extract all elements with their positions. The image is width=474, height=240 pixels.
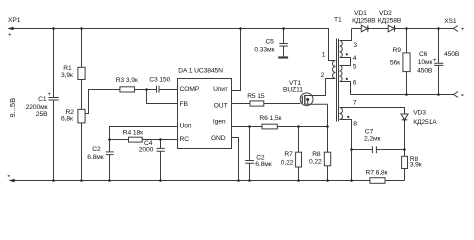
svg-text:9...5В: 9...5В: [8, 98, 17, 118]
svg-text:R7: R7: [284, 151, 293, 158]
svg-text:R3 3,9к: R3 3,9к: [116, 77, 138, 84]
svg-text:КД251А: КД251А: [413, 119, 437, 126]
svg-text:КД258В: КД258В: [352, 17, 376, 24]
svg-text:2200мк: 2200мк: [26, 104, 48, 111]
svg-text:+: +: [47, 91, 51, 98]
svg-text:6,8к: 6,8к: [61, 116, 73, 123]
svg-text:С5: С5: [265, 39, 274, 46]
svg-text:DA 1 UC3845N: DA 1 UC3845N: [178, 67, 223, 74]
svg-text:C3 150: C3 150: [149, 77, 170, 84]
svg-text:2: 2: [321, 72, 325, 79]
svg-text:FB: FB: [180, 101, 189, 108]
svg-text:R6 1,5к: R6 1,5к: [259, 115, 281, 122]
svg-text:6.8мк: 6.8мк: [255, 161, 271, 168]
svg-text:25В: 25В: [36, 111, 48, 118]
svg-text:+: +: [433, 57, 437, 64]
svg-text:Igen: Igen: [213, 118, 226, 125]
svg-text:Uпит: Uпит: [213, 86, 228, 93]
svg-text:3,9к: 3,9к: [61, 72, 73, 79]
svg-text:10мк: 10мк: [418, 59, 433, 66]
svg-text:3,9к: 3,9к: [410, 162, 422, 169]
svg-text:450В: 450В: [444, 51, 460, 58]
svg-text:56к: 56к: [390, 60, 400, 67]
svg-text:0,22: 0,22: [309, 159, 322, 166]
svg-text:VD3: VD3: [413, 110, 426, 117]
svg-text:COMP: COMP: [180, 86, 200, 93]
svg-text:450В: 450В: [417, 68, 433, 75]
svg-text:OUT: OUT: [214, 102, 228, 109]
svg-text:VD1: VD1: [354, 10, 367, 17]
svg-text:R4 18к: R4 18к: [123, 130, 143, 137]
svg-text:R5 15: R5 15: [247, 93, 265, 100]
svg-text:4: 4: [353, 55, 357, 62]
svg-text:3: 3: [353, 42, 357, 49]
svg-text:Uоп: Uоп: [180, 122, 192, 129]
svg-text:5: 5: [353, 63, 357, 70]
svg-text:C1: C1: [38, 96, 47, 103]
svg-text:2,2мк: 2,2мк: [364, 136, 380, 143]
svg-text:8: 8: [353, 120, 357, 127]
svg-text:+: +: [8, 32, 12, 39]
svg-text:C2: C2: [92, 146, 101, 153]
svg-text:0.33мк: 0.33мк: [254, 46, 274, 53]
svg-text:C7: C7: [365, 129, 374, 136]
svg-text:XS1: XS1: [444, 18, 457, 25]
svg-text:КД258В: КД258В: [378, 17, 402, 24]
svg-text:T1: T1: [334, 17, 342, 24]
svg-text:R9: R9: [393, 47, 402, 54]
svg-text:XP1: XP1: [8, 17, 21, 24]
svg-text:6.8мк: 6.8мк: [87, 154, 103, 161]
svg-text:6: 6: [353, 79, 357, 86]
svg-text:BUZ11: BUZ11: [283, 86, 303, 93]
svg-text:С6: С6: [419, 51, 428, 58]
svg-text:GND: GND: [211, 135, 226, 142]
svg-text:0,22: 0,22: [281, 159, 294, 166]
svg-text:R8: R8: [312, 151, 321, 158]
svg-text:1: 1: [322, 51, 326, 58]
svg-text:7: 7: [353, 99, 357, 106]
svg-text:+: +: [461, 26, 465, 33]
svg-text:2000: 2000: [139, 147, 154, 154]
svg-text:VD2: VD2: [379, 10, 392, 17]
svg-text:R7 6,8к: R7 6,8к: [366, 170, 388, 177]
svg-text:RC: RC: [180, 136, 190, 143]
